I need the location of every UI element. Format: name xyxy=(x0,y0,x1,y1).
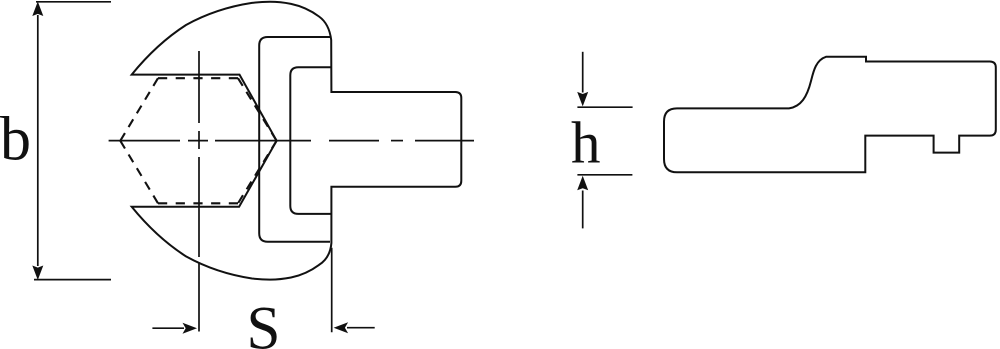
inner slot edge ring C2 (inner) xyxy=(290,67,331,214)
open-end wrench head outline with shank (front view) xyxy=(132,2,462,280)
dimension b arrow down xyxy=(32,266,43,281)
hexagon nut profile (dashed, width across flats S) xyxy=(120,78,276,203)
dimension S arrow pointing right xyxy=(183,323,198,334)
dimension h arrow up to bottom tick xyxy=(577,176,588,191)
dimension h: ticks and arrow shafts xyxy=(577,52,632,229)
insert tool side view outline with 9x12 shank and locking tab xyxy=(664,57,996,173)
vertical centerline (dash-dot, doubles as S left extension line) xyxy=(198,51,200,332)
svg-text:b: b xyxy=(0,106,31,174)
svg-text:S: S xyxy=(247,296,281,349)
inner slot edge ring C1 (outer) xyxy=(259,37,330,242)
dimension S arrow pointing left xyxy=(334,322,349,333)
dimension b arrow up xyxy=(32,2,43,17)
dimension S: right extension line and arrow lines xyxy=(152,248,374,332)
dimension b: line and extension ticks xyxy=(34,2,111,280)
svg-text:h: h xyxy=(571,110,601,176)
dimension h arrow down to top tick xyxy=(577,92,588,107)
horizontal centerline (dash-dot) xyxy=(109,140,474,142)
